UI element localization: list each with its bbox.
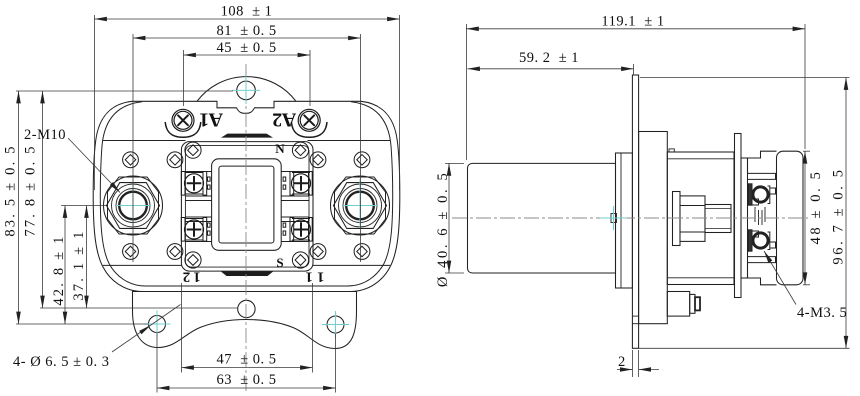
svg-text:59. 2 ± 1: 59. 2 ± 1 <box>519 50 579 66</box>
svg-text:N: N <box>275 141 285 156</box>
svg-text:37. 1 ± 1: 37. 1 ± 1 <box>71 229 87 300</box>
svg-text:A2: A2 <box>272 109 296 131</box>
svg-text:108 ± 1: 108 ± 1 <box>221 4 273 20</box>
svg-text:48 ± 0. 5: 48 ± 0. 5 <box>808 170 824 245</box>
svg-text:81 ± 0. 5: 81 ± 0. 5 <box>217 23 277 39</box>
svg-text:96. 7 ± 0. 5: 96. 7 ± 0. 5 <box>831 167 847 264</box>
svg-text:83. 5 ± 0. 5: 83. 5 ± 0. 5 <box>3 144 19 236</box>
svg-text:11: 11 <box>300 269 324 285</box>
svg-text:A1: A1 <box>200 109 223 131</box>
svg-text:77. 8 ± 0. 5: 77. 8 ± 0. 5 <box>23 144 39 236</box>
svg-text:119.1 ± 1: 119.1 ± 1 <box>601 14 664 30</box>
svg-text:42. 8 ± 1: 42. 8 ± 1 <box>51 234 67 305</box>
svg-text:S: S <box>276 255 283 270</box>
svg-text:45 ± 0. 5: 45 ± 0. 5 <box>217 40 277 56</box>
svg-text:2: 2 <box>618 354 626 370</box>
svg-text:Ø 40. 6 ± 0. 5: Ø 40. 6 ± 0. 5 <box>435 171 451 287</box>
svg-text:2-M10: 2-M10 <box>24 127 66 143</box>
svg-text:63 ± 0. 5: 63 ± 0. 5 <box>216 372 276 388</box>
svg-text:12: 12 <box>180 269 201 285</box>
svg-text:4- Ø 6. 5 ± 0. 3: 4- Ø 6. 5 ± 0. 3 <box>13 354 110 370</box>
svg-text:4-M3. 5: 4-M3. 5 <box>797 305 847 321</box>
svg-text:47 ± 0. 5: 47 ± 0. 5 <box>216 352 276 368</box>
